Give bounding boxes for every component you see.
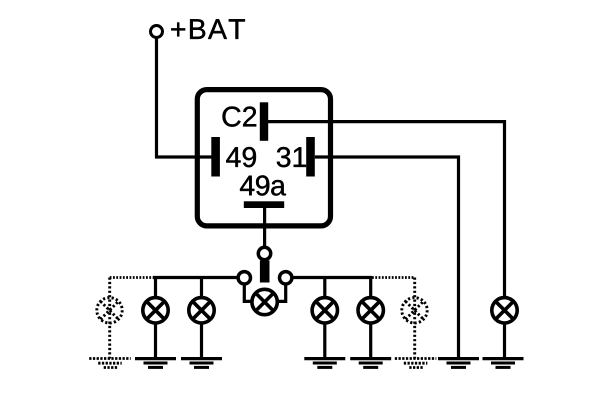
wire left contact to pilot lamp xyxy=(244,283,253,301)
terminal +BAT xyxy=(151,26,163,38)
lamp H2 xyxy=(189,298,214,323)
label 31 xyxy=(277,147,306,167)
dotted wire drop lamp H6 (runs through lamp to ground) xyxy=(413,278,416,359)
dotted lamp H6 xyxy=(402,298,427,323)
dotted ground lamp H6 xyxy=(395,359,437,368)
ground lamp H5 xyxy=(350,359,391,368)
label 49 xyxy=(226,147,256,167)
lamp H7 (fed by C2) xyxy=(492,298,517,323)
wire drop lamp H1 xyxy=(154,278,157,300)
contact bar 49 xyxy=(211,137,220,177)
switch right contact xyxy=(280,272,292,284)
switch wiper xyxy=(260,261,270,283)
relay K1 body xyxy=(197,90,330,226)
wire drop lamp H5 xyxy=(369,278,372,300)
ground lamp H4 xyxy=(304,359,345,368)
wire lamp H5 to ground xyxy=(369,322,372,359)
wire +BAT to terminal 49 xyxy=(157,38,214,158)
wire right bus (dotted) xyxy=(372,276,415,279)
lamp H4 xyxy=(312,298,337,323)
wire C2 to right lamp H7 xyxy=(268,122,505,299)
contact bar 31 xyxy=(306,137,315,177)
wire right contact to pilot lamp xyxy=(277,283,286,301)
wire lamp H7 to ground xyxy=(503,322,506,359)
dotted wire drop lamp H3 (runs through lamp to ground) xyxy=(108,278,111,359)
ground lamp H7 xyxy=(483,359,524,368)
wire 31 to ground xyxy=(315,157,459,359)
wire left bus (solid) xyxy=(153,276,239,279)
pilot lamp H0 xyxy=(252,289,277,314)
switch left contact xyxy=(238,272,250,284)
lamp H1 xyxy=(143,298,168,323)
wire 49a to switch xyxy=(263,208,266,249)
label +BAT xyxy=(171,19,245,39)
lamp H5 xyxy=(358,298,383,323)
contact bar 49a xyxy=(244,201,284,208)
label 49a xyxy=(240,175,286,195)
contact bar C2 xyxy=(260,102,268,141)
dotted ground lamp H3 xyxy=(89,359,131,368)
wire right bus (solid) xyxy=(291,276,372,279)
ground lamp H2 xyxy=(181,359,222,368)
label C2 xyxy=(223,107,257,127)
wire left bus (dotted) xyxy=(110,276,153,279)
wire lamp H2 to ground xyxy=(200,322,203,359)
ground terminal 31 xyxy=(438,359,479,368)
wire drop lamp H2 xyxy=(200,278,203,300)
wire lamp H4 to ground xyxy=(323,322,326,359)
wire lamp H1 to ground xyxy=(154,322,157,359)
switch S1 common contact xyxy=(258,247,270,259)
ground lamp H1 xyxy=(135,359,176,368)
dotted lamp H3 xyxy=(97,298,122,323)
wire drop lamp H4 xyxy=(323,278,326,300)
